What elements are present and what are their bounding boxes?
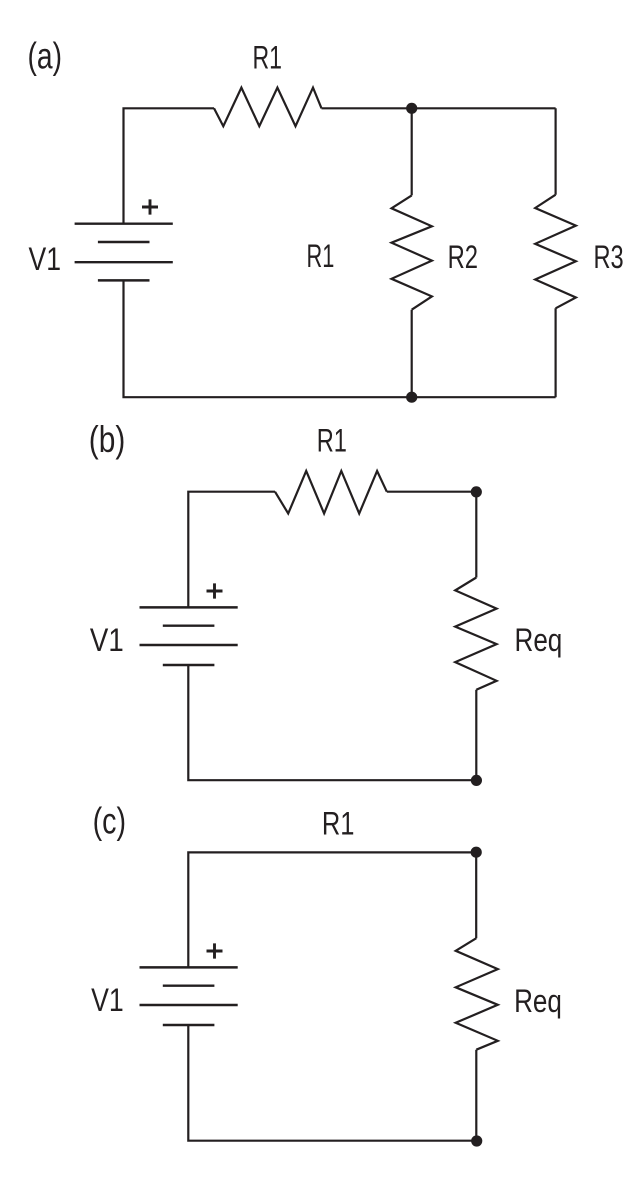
wire top-left of circuit b bbox=[188, 492, 275, 608]
node junction bottom of circuit a bbox=[406, 392, 417, 403]
svg-text:R3: R3 bbox=[594, 239, 624, 275]
wire top of circuit c labelled R1 bbox=[188, 852, 476, 967]
svg-text:V1: V1 bbox=[29, 241, 62, 277]
plus sign of battery c bbox=[207, 943, 223, 958]
wire from R1 to node at top of R2 bbox=[322, 107, 412, 109]
svg-text:(c): (c) bbox=[93, 800, 127, 841]
node bottom-right of circuit b bbox=[471, 775, 482, 786]
wire node to Req top of circuit b bbox=[475, 492, 477, 578]
wire Req bottom to node of circuit c bbox=[475, 1050, 477, 1141]
resistor Req of circuit c bbox=[456, 938, 498, 1049]
wire R1 to top-right node of circuit b bbox=[387, 491, 477, 493]
wire R2 bottom to node bbox=[411, 310, 413, 398]
resistor R3 of circuit a bbox=[535, 195, 576, 309]
wire R3 bottom to corner bbox=[554, 308, 556, 397]
wire bottom-right of circuit a bbox=[412, 396, 556, 398]
svg-text:(b): (b) bbox=[89, 419, 126, 460]
svg-text:R1: R1 bbox=[307, 238, 335, 274]
wire bottom of circuit c bbox=[188, 1025, 476, 1141]
wire bottom-left of circuit a bbox=[124, 280, 412, 397]
battery V1 of circuit c bbox=[140, 966, 238, 968]
wire node to R2 top bbox=[411, 108, 413, 195]
svg-text:V1: V1 bbox=[91, 982, 124, 1018]
svg-text:R1: R1 bbox=[253, 39, 283, 75]
wire top-left of circuit a bbox=[124, 108, 215, 223]
node bottom-right of circuit c bbox=[471, 1135, 482, 1146]
svg-text:Req: Req bbox=[515, 622, 563, 658]
wire top-right corner to R3 bbox=[554, 108, 556, 194]
svg-text:R2: R2 bbox=[448, 239, 478, 275]
node top-right of circuit c bbox=[471, 847, 482, 858]
resistor R1 of circuit a bbox=[214, 88, 322, 127]
wire node to Req top of circuit c bbox=[475, 852, 477, 938]
resistor R1 of circuit b bbox=[275, 471, 387, 514]
plus sign of battery b bbox=[207, 583, 223, 598]
battery V1 of circuit a bbox=[75, 222, 173, 224]
svg-text:Req: Req bbox=[514, 983, 562, 1019]
node junction top of circuit a bbox=[406, 103, 417, 114]
battery V1 of circuit b bbox=[140, 606, 238, 608]
svg-text:(a): (a) bbox=[28, 35, 63, 76]
wire Req bottom to node of circuit b bbox=[475, 690, 477, 781]
plus sign of battery a bbox=[142, 199, 158, 214]
node top-right of circuit b bbox=[471, 486, 482, 497]
svg-text:V1: V1 bbox=[90, 622, 124, 658]
wire from node to top-right corner bbox=[412, 107, 556, 109]
svg-text:R1: R1 bbox=[317, 423, 347, 459]
svg-text:R1: R1 bbox=[322, 806, 355, 842]
wire bottom of circuit b bbox=[188, 665, 476, 780]
resistor R2 of circuit a bbox=[392, 195, 432, 309]
resistor Req of circuit b bbox=[455, 578, 496, 690]
